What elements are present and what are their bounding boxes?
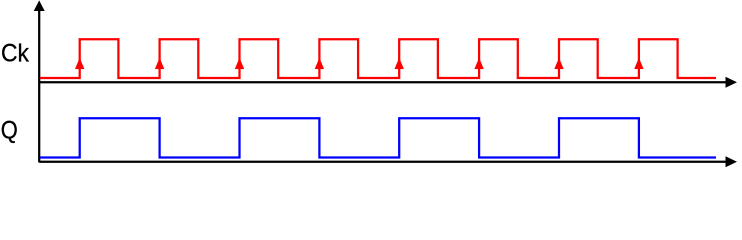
rising edge arrow 7 (554, 58, 563, 69)
rising edge arrow 6 (474, 58, 483, 69)
y-axis (38, 4, 40, 162)
rising edge arrow 5 (395, 58, 404, 69)
svg-text:Ck: Ck (1, 39, 29, 67)
rising edge arrow 4 (315, 58, 324, 69)
rising edge arrow 8 (634, 58, 643, 69)
Ck time axis (39, 81, 727, 83)
rising edge arrow 2 (155, 58, 164, 69)
y-axis arrowhead (34, 0, 45, 11)
Q axis arrowhead (726, 156, 738, 167)
Q output waveform (40, 118, 716, 157)
svg-text:Q: Q (1, 117, 18, 145)
Q time axis (39, 161, 727, 163)
Ck axis arrowhead (726, 77, 738, 88)
rising edge arrow 3 (235, 58, 244, 69)
rising edge arrow 1 (75, 58, 84, 69)
Ck clock waveform (40, 39, 716, 78)
